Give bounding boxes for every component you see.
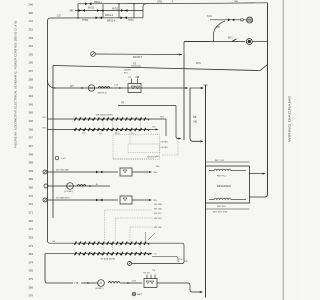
wire reverser to right bus top — [250, 173, 265, 175]
row A: connector circle — [43, 170, 47, 174]
svg-text:MB: MB — [70, 11, 74, 13]
svg-text:375: 375 — [29, 277, 34, 281]
svg-text:MB: MB — [193, 117, 197, 119]
reverser box — [206, 166, 250, 203]
svg-text:MU 74E: MU 74E — [154, 227, 162, 229]
svg-text:TAN: TAN — [234, 0, 239, 3]
svg-text:354: 354 — [29, 252, 34, 256]
small connector circle above row A — [55, 156, 59, 160]
svg-text:WT: WT — [70, 85, 74, 88]
contact lower-4 — [102, 252, 112, 255]
row B motor circle — [67, 183, 74, 190]
motor M circle — [88, 85, 94, 91]
svg-text:367: 367 — [29, 144, 34, 148]
svg-text:M: M — [100, 281, 102, 285]
contact upper-7 — [130, 117, 139, 120]
contact upper-1 — [75, 128, 85, 131]
svg-text:352: 352 — [29, 219, 34, 223]
svg-text:366: 366 — [29, 127, 34, 131]
svg-text:371: 371 — [29, 211, 34, 215]
wire cont — [81, 282, 98, 284]
svg-text:TH5B: TH5B — [82, 20, 88, 22]
svg-text:347: 347 — [29, 136, 34, 140]
row B: connector circle — [44, 184, 48, 188]
arrow on motor row — [81, 87, 84, 89]
wire upper y119 — [72, 118, 146, 120]
svg-text:350: 350 — [29, 186, 34, 190]
contact lower-1 — [75, 242, 85, 245]
big box left edge wire — [52, 66, 54, 219]
svg-text:MU TM5 BAT: MU TM5 BAT — [56, 169, 70, 172]
svg-text:M(T)3: M(T)3 — [112, 9, 119, 11]
wire 258 tail — [152, 257, 178, 263]
wire MR BKT horizontal — [95, 53, 182, 56]
svg-text:240: 240 — [29, 3, 34, 7]
connector circle on MR wire — [91, 52, 96, 57]
svg-text:BATT: BATT — [137, 293, 143, 296]
contact on lamp1 wire — [228, 18, 234, 21]
connector circle on wrap wire — [128, 262, 132, 266]
row B coil — [77, 185, 86, 187]
svg-text:254: 254 — [29, 44, 34, 48]
svg-text:TB: TB — [133, 63, 136, 66]
svg-text:FLD: FLD — [124, 72, 129, 74]
dashed drop from row2 b — [129, 131, 131, 144]
svg-text:372: 372 — [29, 227, 34, 231]
svg-text:MU BAT NEG: MU BAT NEG — [56, 197, 70, 200]
svg-text:251: 251 — [29, 27, 34, 31]
junction dot rung1/rail d — [133, 3, 134, 4]
svg-text:TM TM: TM TM — [143, 273, 150, 275]
svg-text:74A: 74A — [153, 171, 157, 174]
contact upper-5 — [112, 117, 122, 120]
row C contacts — [96, 199, 102, 202]
interlock tie at x112.3 — [111, 245, 113, 252]
contact upper-5 — [112, 128, 122, 131]
svg-text:SMGR: SMGR — [124, 70, 131, 72]
motor row wire — [53, 87, 187, 89]
contact upper-1 — [75, 117, 85, 120]
svg-text:M(T)2: M(T)2 — [88, 8, 95, 10]
svg-text:74C: 74C — [152, 127, 156, 129]
svg-text:356: 356 — [29, 285, 34, 289]
vertical wire V2 — [189, 88, 191, 139]
contact row group upper — [72, 117, 149, 131]
diode box bottom — [144, 279, 157, 288]
dashed link up to arrow — [162, 141, 178, 155]
interlock tie at x112.3 — [111, 121, 113, 128]
svg-text:376: 376 — [29, 294, 34, 298]
contact lower-3 — [93, 242, 103, 245]
svg-text:353: 353 — [29, 235, 34, 239]
wire top rung 1 — [78, 2, 222, 5]
wire upper y129.5 — [72, 129, 146, 131]
row C wire — [47, 199, 118, 201]
contact upper-2 — [84, 128, 94, 131]
svg-text:257: 257 — [29, 69, 34, 73]
svg-text:373: 373 — [29, 244, 34, 248]
ladder vertical rail b — [102, 4, 104, 18]
svg-text:253: 253 — [29, 36, 34, 40]
contact rung2 mid — [97, 9, 104, 12]
row1 tail to corner — [146, 118, 166, 120]
jog and arrow at bottom of TB vertical — [176, 137, 180, 139]
branch curve from lamp1 wire down to lamp2 wire — [214, 21, 226, 41]
dashed row inside bottom — [113, 158, 155, 160]
wire reverser to right bus bottom / bus corner — [250, 194, 268, 197]
svg-text:74B: 74B — [160, 117, 164, 119]
contact lower-1 — [75, 252, 85, 255]
svg-text:TH52: TH52 — [128, 20, 134, 22]
wire from V1 corner to lamp2 line — [184, 42, 210, 55]
svg-text:TM: TM — [52, 241, 55, 243]
svg-text:BKT TOP: BKT TOP — [215, 160, 225, 162]
row B wire — [48, 185, 110, 187]
row C tail — [132, 199, 149, 201]
svg-text:WIRING DIAGRAMS: WIRING DIAGRAMS — [288, 96, 292, 142]
battery connector — [132, 292, 136, 296]
contact upper-6 — [121, 117, 131, 120]
svg-text:(LOCAL): (LOCAL) — [64, 190, 73, 193]
svg-text:FIGURE 8A. LOCOMOTIVE ELECTRIC: FIGURE 8A. LOCOMOTIVE ELECTRICAL SCHEMAT… — [14, 21, 18, 148]
svg-text:2TB: 2TB — [132, 281, 137, 283]
svg-text:351: 351 — [29, 202, 34, 206]
svg-text:365: 365 — [29, 111, 34, 115]
contact lower-5 — [112, 242, 122, 245]
svg-text:74E: 74E — [193, 122, 198, 124]
svg-text:DB REL: DB REL — [161, 142, 169, 144]
row A tail — [132, 171, 149, 173]
svg-text:TAN: TAN — [207, 15, 212, 18]
vertical from TB row down — [175, 106, 177, 138]
contact lower-8 — [140, 252, 149, 255]
corner down and arrow into mid bus — [188, 283, 200, 292]
contact rung3 left — [96, 16, 103, 19]
svg-text:348: 348 — [29, 152, 34, 156]
contact lower-7 — [130, 242, 139, 245]
ladder vertical rail d — [133, 4, 135, 18]
ticks above bottom diode box — [146, 275, 148, 279]
svg-text:(START): (START) — [95, 287, 104, 290]
svg-text:74D: 74D — [184, 261, 188, 263]
svg-text:TM: TM — [152, 270, 155, 272]
switch contact on lamp2 wire — [232, 39, 238, 42]
left long vertical wire W1 — [47, 21, 49, 241]
svg-text:MU 74D: MU 74D — [154, 218, 162, 220]
svg-text:370: 370 — [29, 194, 34, 198]
svg-text:MB: MB — [216, 26, 220, 29]
coil row bottom inside — [214, 198, 231, 199]
wire number margin column — [29, 3, 34, 298]
arrow bottom row — [87, 282, 90, 284]
ticks above diode box — [131, 79, 133, 84]
right vertical bus — [267, 3, 269, 194]
svg-text:300: 300 — [29, 11, 34, 15]
BKT BOTTOM line — [206, 208, 250, 210]
svg-text:TM (DB) (MTR): TM (DB) (MTR) — [100, 259, 115, 261]
row A wire — [47, 171, 118, 173]
wire continues to mid bus — [190, 87, 201, 89]
long wire from box edge to right bus — [53, 65, 268, 71]
row A diode box — [120, 168, 132, 176]
interlock tie at x140.2 — [139, 121, 141, 128]
D1 inner dashed box — [128, 144, 160, 153]
wire lower y243.2 — [72, 242, 146, 244]
arrow2 on motor row — [119, 87, 122, 89]
coil on motor row — [98, 87, 110, 89]
arrow bottom row 2 — [127, 282, 130, 284]
svg-text:259: 259 — [29, 86, 34, 90]
row B arrow — [89, 185, 92, 187]
wire lower y253.7 — [72, 253, 146, 255]
wire top rung 1 extension to right bus — [222, 2, 268, 4]
svg-text:GRN: GRN — [157, 1, 162, 3]
contact rung3 right — [121, 16, 128, 19]
svg-text:346: 346 — [29, 119, 34, 123]
contact upper-7 — [130, 128, 139, 131]
wire lamp1 feed — [210, 19, 241, 21]
BKT TOP line — [206, 161, 250, 163]
svg-text:MR (DB4) (MTR): MR (DB4) (MTR) — [96, 115, 113, 117]
V2 bottom corner into mid bus — [190, 139, 200, 142]
mid vertical bus — [205, 85, 207, 298]
contact upper-3 — [93, 117, 103, 120]
svg-text:74E: 74E — [179, 259, 183, 261]
stub W1 to row2 — [48, 129, 73, 131]
svg-text:MR21-1: MR21-1 — [94, 2, 103, 4]
interlock tie at x140.2 — [139, 245, 141, 252]
row2 tail arrow — [146, 129, 157, 131]
ladder vertical rail e — [143, 4, 146, 18]
svg-text:345: 345 — [29, 102, 34, 106]
contact upper-8 — [140, 128, 149, 131]
svg-text:MR BKT: MR BKT — [133, 56, 143, 59]
svg-text:TB: TB — [121, 102, 124, 105]
wire lamp2 feed — [184, 41, 245, 43]
svg-text:369: 369 — [29, 177, 34, 181]
dashed drop from row2 a — [118, 131, 120, 135]
ladder vertical rail a — [77, 4, 79, 18]
svg-text:MTA: MTA — [196, 62, 201, 65]
stub into lower row2 — [45, 253, 72, 255]
bottom wire — [48, 282, 74, 284]
contact lower-3 — [93, 252, 103, 255]
contact upper-3 — [93, 128, 103, 131]
svg-text:REVERSER: REVERSER — [217, 185, 231, 188]
bottom wire to corner — [157, 282, 188, 284]
small connector circle before lamp1 — [241, 19, 244, 22]
svg-text:241: 241 — [29, 19, 34, 23]
svg-text:REV FLD: REV FLD — [217, 206, 227, 208]
svg-text:REV FLD: REV FLD — [217, 175, 227, 177]
row1 tail wrap: right, down, left — [132, 243, 184, 263]
contact upper-4 — [102, 117, 112, 120]
lamp L2 (filled) — [246, 39, 252, 45]
arrow merge into V1 — [179, 54, 182, 56]
contact lower-6 — [121, 242, 131, 245]
contact upper-4 — [102, 128, 112, 131]
stub W1 to row1 — [48, 118, 73, 120]
contact lower-7 — [130, 252, 139, 255]
contact lower-2 — [84, 252, 94, 255]
contact row group lower — [72, 242, 149, 256]
row C diode box — [120, 196, 132, 204]
contact upper-8 — [140, 117, 149, 120]
junction dot rung1/rail c — [118, 3, 119, 4]
wire lamp2 to bus — [252, 41, 267, 43]
contact MR21-1 on rung1 — [85, 2, 92, 5]
svg-text:1TB: 1TB — [74, 282, 79, 285]
svg-text:DB REL: DB REL — [161, 147, 169, 149]
motor WT circle — [98, 280, 105, 287]
svg-text:258: 258 — [29, 77, 34, 81]
dashed interlock net D3 — [105, 210, 153, 241]
svg-text:GEN FLD: GEN FLD — [97, 93, 107, 95]
bottom coil — [108, 282, 120, 284]
D1 outer dashed box — [113, 135, 160, 160]
svg-text:310: 310 — [29, 94, 34, 98]
wire cont2 — [120, 282, 142, 284]
vertical wire V1 — [183, 55, 185, 141]
W1 lower segment — [45, 254, 48, 284]
svg-text:BKT: BKT — [228, 36, 233, 39]
contact lower-5 — [112, 252, 122, 255]
svg-text:MR21-2: MR21-2 — [105, 15, 114, 17]
stub into lower row1 — [48, 241, 73, 243]
contact lower-6 — [121, 252, 131, 255]
svg-text:MU 74B: MU 74B — [154, 209, 162, 211]
coil row top inside — [214, 169, 231, 170]
small riser wire near row D — [146, 232, 156, 241]
svg-text:368: 368 — [29, 161, 34, 165]
contact lower-8 — [140, 242, 149, 245]
motor row: branch curve from W1 — [48, 80, 57, 88]
svg-text:374: 374 — [29, 260, 34, 264]
svg-text:MU 74A: MU 74A — [154, 203, 162, 206]
right sheet border line — [282, 0, 284, 300]
svg-text:MU 74C: MU 74C — [154, 213, 162, 215]
diode box on motor row — [128, 84, 141, 93]
arrow merge into V2 — [186, 87, 189, 89]
contact rung2 right — [121, 9, 128, 12]
contact upper-6 — [121, 128, 131, 131]
contact lower-4 — [102, 242, 112, 245]
interlock tie at x103 — [102, 121, 104, 128]
svg-text:MR22-4: MR22-4 — [107, 20, 116, 22]
wire top rung 2 — [75, 10, 143, 12]
contact lower-2 — [84, 242, 94, 245]
svg-text:L-BT: L-BT — [61, 158, 66, 160]
interlock tie at x103 — [102, 245, 104, 252]
svg-text:BKT BOTTOM: BKT BOTTOM — [213, 212, 227, 214]
svg-text:355: 355 — [29, 269, 34, 273]
row A contacts — [96, 171, 102, 174]
contact rung2 left — [79, 9, 86, 12]
svg-text:349: 349 — [29, 169, 34, 173]
contact upper-2 — [84, 117, 94, 120]
svg-text:M: M — [69, 184, 71, 188]
row C: connector circle — [43, 198, 47, 202]
junction dot rung3/rail a — [77, 17, 78, 18]
wire top rung 3 — [48, 18, 144, 21]
svg-text:74B: 74B — [153, 200, 157, 202]
lamp L1 (circle with double bar) — [247, 17, 253, 23]
svg-text:255: 255 — [29, 52, 34, 56]
ladder vertical rail c — [118, 4, 120, 18]
wire TB row — [118, 105, 176, 107]
svg-text:256: 256 — [29, 61, 34, 65]
row2 tail arrow — [146, 253, 151, 255]
